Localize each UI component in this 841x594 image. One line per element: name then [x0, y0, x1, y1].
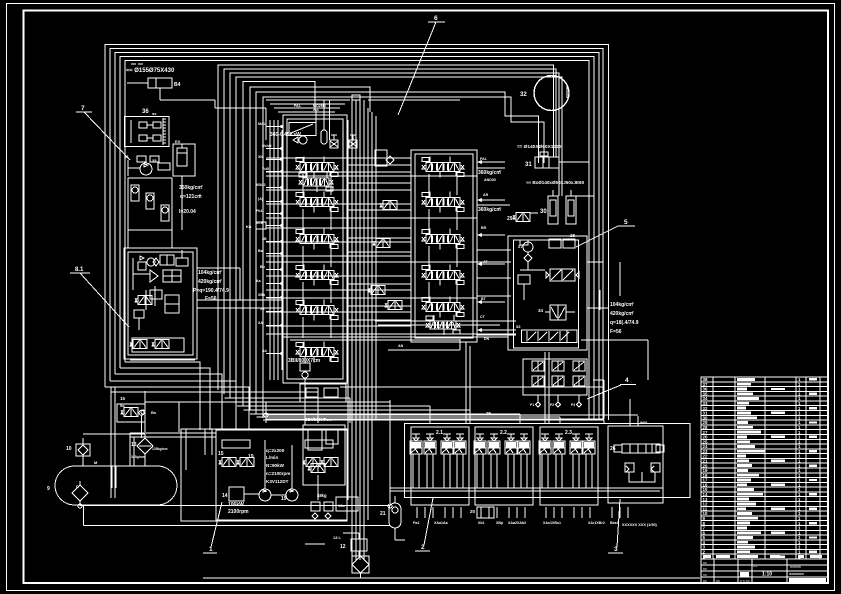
svg-text:2.3: 2.3	[565, 430, 572, 436]
svg-text:35: 35	[152, 158, 157, 163]
component low pressure relief near tank	[117, 396, 157, 422]
svg-text:P3: P3	[571, 403, 575, 407]
svg-text:Pb1: Pb1	[256, 209, 263, 213]
svg-text:W06: W06	[640, 421, 647, 425]
component 30 twin cylinders	[526, 180, 594, 224]
component 33 valve block lower	[523, 359, 587, 407]
svg-text:(A): (A)	[258, 197, 264, 201]
svg-text:JB: JB	[262, 237, 267, 241]
text bottom row port labels	[413, 507, 628, 525]
svg-text:3: 3	[614, 546, 618, 553]
svg-text:33: 33	[516, 324, 521, 329]
svg-text:2100rpm: 2100rpm	[228, 509, 249, 515]
component 32 swing motor circle	[520, 76, 569, 111]
svg-text:XBA2: XBA2	[256, 183, 266, 187]
component 26 solenoid valve block	[608, 426, 664, 503]
svg-text:8.1: 8.1	[75, 267, 84, 273]
svg-text:335g/cm: 335g/cm	[131, 455, 145, 459]
svg-text:48kg: 48kg	[317, 493, 327, 498]
svg-text:≈≈: ≈≈	[703, 579, 707, 583]
component 10 air filter	[66, 438, 90, 466]
svg-text:420kg/cm: 420kg/cm	[610, 311, 633, 317]
node label 5 with leader	[576, 219, 635, 247]
component small check mid	[246, 222, 266, 229]
svg-text:19: 19	[281, 496, 287, 502]
svg-text:Bs: Bs	[151, 410, 157, 415]
svg-text:≈≈≈≈≈: ≈≈≈≈≈	[790, 564, 802, 569]
svg-text:14: 14	[222, 493, 228, 499]
svg-text:CT: CT	[480, 315, 486, 319]
wire inner pilot bus loops	[218, 65, 562, 418]
svg-text:≈≈ BxØ140xØ50xJ50xJE60: ≈≈ BxØ140xØ50xJ50xJE60	[526, 180, 585, 185]
svg-text:30: 30	[540, 209, 547, 215]
svg-text:≈≈: ≈≈	[703, 567, 707, 571]
component 20 shuttle block	[470, 507, 494, 518]
svg-text:104kg/cm: 104kg/cm	[610, 302, 633, 308]
svg-text:N=90kW: N=90kW	[266, 463, 285, 468]
text right bank port labels	[480, 157, 490, 341]
component right main control valve bank	[411, 150, 477, 342]
component 2.1 pilot valve group	[410, 427, 469, 505]
text AN node label	[398, 344, 404, 348]
component 12 return filter with box	[333, 533, 369, 578]
svg-text:32: 32	[520, 92, 527, 98]
svg-text:1:10: 1:10	[762, 572, 772, 578]
svg-text:135kg/cm: 135kg/cm	[152, 447, 167, 451]
svg-text:≈≈≈≈≈≈: ≈≈≈≈≈≈	[789, 572, 804, 577]
svg-text:XAs1XBs1: XAs1XBs1	[543, 521, 561, 525]
svg-text:XBb: XBb	[258, 293, 266, 297]
svg-text:5: 5	[624, 219, 628, 226]
svg-text:AN: AN	[398, 344, 404, 348]
svg-text:29: 29	[507, 216, 513, 222]
wire central cluster top feeds	[266, 100, 350, 140]
svg-text:EX: EX	[175, 139, 181, 144]
svg-text:X1: X1	[124, 154, 130, 159]
svg-text:AR: AR	[483, 193, 489, 197]
svg-text:YuB: YuB	[262, 167, 269, 171]
svg-text:AND30: AND30	[484, 178, 496, 182]
svg-text:360kg/cm: 360kg/cm	[478, 207, 501, 213]
component B4 cylinder with dimension text	[126, 64, 215, 100]
svg-text:XAa2XAb2: XAa2XAb2	[508, 521, 526, 525]
svg-text:26: 26	[610, 446, 616, 452]
component 36 gearbox block	[125, 109, 170, 147]
component inline check at bank bottom	[300, 356, 310, 425]
svg-text:20: 20	[470, 509, 476, 514]
node label 7 with leader	[76, 105, 130, 160]
svg-text:13 L: 13 L	[333, 535, 342, 540]
node label 1 with leader	[203, 502, 222, 553]
svg-text:B4: B4	[174, 82, 181, 88]
svg-text:ss: ss	[152, 111, 157, 116]
svg-text:q=2x200: q=2x200	[266, 448, 285, 453]
svg-text:P=q=190.4/74.9: P=q=190.4/74.9	[193, 288, 229, 294]
component left main control valve bank	[270, 115, 347, 383]
component 29 check valve	[507, 213, 538, 223]
component bank inlet cluster	[289, 95, 360, 148]
wire bank interconnect horizontals	[266, 158, 511, 334]
component interbank auxiliary valves	[368, 150, 402, 310]
svg-text:DN: DN	[484, 337, 490, 341]
svg-text:≈≈: ≈≈	[703, 561, 707, 565]
svg-text:≈≈ Ø140XØ60X1020: ≈≈ Ø140XØ60X1020	[517, 144, 562, 150]
svg-text:15: 15	[120, 396, 126, 401]
svg-text:L/min: L/min	[266, 455, 278, 460]
svg-text:≈ ≈ ≈≈: ≈ ≈ ≈≈	[740, 579, 750, 583]
wire outer supply bus loops	[105, 45, 609, 499]
svg-text:27: 27	[518, 244, 524, 249]
svg-text:Kb: Kb	[246, 224, 252, 229]
wire left port column verticals	[270, 120, 282, 380]
svg-text:XAa1Aa: XAa1Aa	[434, 521, 449, 525]
component center lower valve group	[300, 384, 358, 511]
node label 6 with leader	[398, 15, 445, 115]
component 33 valve row upper	[516, 324, 577, 343]
svg-text:360kg/cm: 360kg/cm	[478, 170, 501, 176]
svg-text:350kg/cm: 350kg/cm	[179, 185, 202, 191]
node junction circles	[78, 410, 392, 508]
svg-text:34: 34	[538, 308, 544, 313]
svg-text:12: 12	[340, 544, 346, 550]
svg-text:7: 7	[81, 105, 85, 112]
component 9 hydraulic tank	[47, 466, 177, 506]
text ratings for block 8.1	[193, 269, 229, 302]
component 31 cylinder	[517, 144, 589, 168]
svg-text:6: 6	[434, 15, 438, 22]
wire tank suction and return lines	[80, 434, 700, 578]
wire central vertical bus bundle	[348, 100, 376, 560]
svg-text:4: 4	[625, 377, 629, 384]
parts list table	[701, 377, 828, 583]
svg-text:n=2100rpm: n=2100rpm	[266, 471, 290, 476]
svg-text:XA: XA	[258, 321, 263, 325]
svg-text:1: 1	[209, 546, 213, 553]
svg-text:Xb1: Xb1	[478, 521, 485, 525]
component 2.2 pilot valve group	[474, 427, 533, 505]
svg-text:XN: XN	[258, 155, 263, 159]
svg-text:≈≈: ≈≈	[703, 573, 707, 577]
node label 3 with leader	[608, 499, 623, 553]
svg-text:XAr1XBr2: XAr1XBr2	[588, 521, 605, 525]
svg-text:Bb: Bb	[260, 265, 266, 269]
svg-text:10: 10	[66, 446, 72, 452]
svg-text:2.1: 2.1	[436, 430, 443, 436]
svg-text:15: 15	[218, 451, 224, 457]
svg-text:28: 28	[570, 233, 576, 238]
node label 4 with leader	[587, 377, 636, 399]
svg-text:Ab: Ab	[262, 349, 268, 353]
component pilot pump cluster with ratings text	[124, 139, 203, 215]
text left bank port labels and stubs	[256, 122, 283, 356]
component 2.3 pilot valve group	[539, 427, 598, 505]
svg-text:≈≈: ≈≈	[716, 579, 720, 583]
svg-text:P2: P2	[550, 403, 554, 407]
svg-text:D: D	[76, 484, 79, 489]
svg-text:XXXXXX XXX (1/50): XXXXXX XXX (1/50)	[622, 523, 658, 527]
component 8.1 pilot valve block	[70, 248, 197, 360]
svg-text:31: 31	[525, 162, 532, 168]
svg-text:PAL: PAL	[294, 104, 302, 108]
svg-text:21: 21	[380, 511, 386, 517]
component 13 oil cooler	[131, 410, 167, 459]
svg-text:104kg/cm: 104kg/cm	[198, 270, 221, 276]
component pilot accumulators group	[128, 178, 172, 230]
component 21 accumulator	[380, 496, 401, 528]
component 14 engine and twin pump group	[94, 429, 347, 521]
svg-text:P1: P1	[530, 403, 534, 407]
svg-text:9: 9	[47, 486, 50, 492]
svg-text:≈≈ Ø155Ø75X430: ≈≈ Ø155Ø75X430	[126, 68, 175, 74]
node label 2 with leader	[415, 498, 433, 551]
title block	[701, 559, 828, 583]
component bottom pilot box outer	[405, 411, 690, 498]
svg-text:XBp: XBp	[496, 521, 504, 525]
svg-text:BR: BR	[481, 226, 487, 230]
svg-text:K3V112DT: K3V112DT	[266, 479, 289, 484]
svg-text:F=56: F=56	[610, 329, 622, 335]
svg-text:Bbs1: Bbs1	[610, 521, 619, 525]
svg-text:q=18(.4/74.9: q=18(.4/74.9	[610, 320, 639, 326]
text ratings right side	[610, 301, 639, 335]
svg-text:Pa1: Pa1	[413, 521, 419, 525]
wire pilot return rails	[390, 488, 663, 491]
wire bottom distribution staircase	[218, 387, 604, 423]
svg-text:106kW: 106kW	[228, 502, 244, 508]
wire short dash near filter	[305, 543, 325, 545]
svg-text:420kg/cm: 420kg/cm	[198, 279, 221, 285]
component 27 28 34 auxiliary valve block	[508, 233, 609, 350]
wire misc interconnections	[111, 84, 648, 540]
svg-text:MAL: MAL	[258, 122, 267, 126]
svg-text:2.2: 2.2	[500, 430, 507, 436]
text right bank pressure labels	[478, 169, 501, 213]
svg-text:F=56: F=56	[205, 296, 217, 302]
svg-text:36: 36	[142, 109, 149, 115]
text bottom row note	[622, 523, 658, 527]
